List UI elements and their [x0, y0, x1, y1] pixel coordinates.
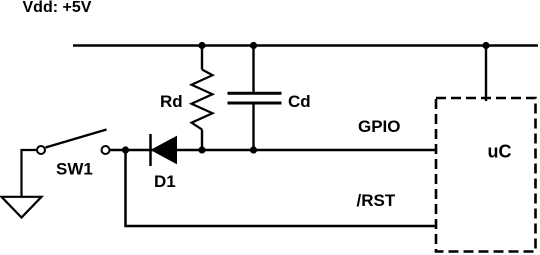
svg-text:SW1: SW1 — [56, 160, 93, 179]
svg-text:D1: D1 — [154, 172, 176, 191]
svg-text:Rd: Rd — [160, 92, 183, 111]
svg-text:Cd: Cd — [288, 92, 311, 111]
svg-text:GPIO: GPIO — [358, 117, 401, 136]
svg-text:Vdd: +5V: Vdd: +5V — [23, 0, 92, 16]
svg-text:/RST: /RST — [357, 191, 396, 210]
svg-text:uC: uC — [488, 142, 512, 162]
